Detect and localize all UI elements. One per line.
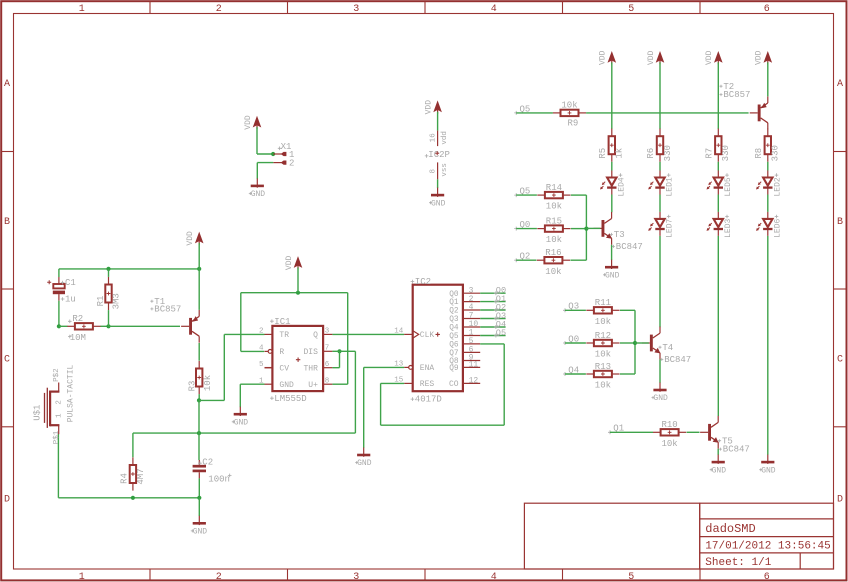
svg-text:3: 3 — [353, 572, 359, 582]
svg-text:BC847: BC847 — [616, 242, 643, 252]
svg-text:GND: GND — [605, 271, 620, 280]
wire IC1 GND — [240, 384, 264, 407]
svg-text:CO: CO — [449, 380, 459, 389]
node net label Q3-R11 — [563, 302, 579, 313]
transistor T5 — [700, 416, 719, 449]
resistor R2 — [67, 314, 100, 343]
wire — [565, 342, 586, 344]
wire — [198, 269, 200, 310]
svg-text:R3: R3 — [187, 381, 197, 392]
svg-text:GND: GND — [193, 528, 208, 537]
svg-text:Q: Q — [313, 331, 318, 340]
svg-text:GND: GND — [712, 466, 727, 475]
svg-text:4: 4 — [491, 4, 497, 15]
svg-text:Q1: Q1 — [449, 299, 459, 307]
wire DIS down — [340, 351, 356, 433]
svg-text:6: 6 — [764, 572, 770, 582]
title block — [524, 503, 833, 569]
transistor T3 — [594, 212, 613, 245]
wire — [612, 62, 719, 128]
label T2 — [720, 82, 751, 100]
pin IC2 CLK 14 — [394, 328, 440, 341]
svg-text:R12: R12 — [595, 331, 611, 341]
svg-text:vss: vss — [441, 163, 449, 177]
wire — [659, 236, 661, 327]
svg-text:R7: R7 — [704, 148, 714, 159]
vdd VDD column — [755, 50, 773, 65]
node junction C1-R2 — [57, 324, 61, 328]
svg-text:VDD: VDD — [755, 50, 764, 65]
led LED1 — [648, 171, 674, 197]
node net label Q4-R13 — [563, 365, 579, 376]
node junction T3 base — [584, 227, 588, 231]
resistor R9 — [553, 101, 586, 129]
wire — [59, 325, 109, 327]
svg-text:Q2: Q2 — [449, 308, 459, 316]
svg-text:GND: GND — [653, 394, 668, 403]
wire — [437, 179, 439, 188]
transistor T4 — [642, 327, 661, 360]
wire — [198, 394, 200, 400]
wire — [108, 269, 110, 326]
svg-text:12: 12 — [469, 377, 479, 386]
svg-text:R14: R14 — [546, 183, 562, 193]
pin IC1 GND 1 — [259, 377, 294, 390]
svg-text:Q5: Q5 — [496, 328, 506, 338]
svg-text:2: 2 — [289, 158, 294, 168]
svg-text:4: 4 — [491, 572, 497, 582]
ground GND C2 — [191, 516, 207, 537]
wire — [586, 112, 749, 114]
svg-text:LED4: LED4 — [617, 177, 626, 196]
svg-text:IC2P: IC2P — [428, 150, 450, 160]
pin IC1 R 4 — [259, 345, 284, 358]
wire DIS-THR — [332, 351, 339, 367]
svg-text:1: 1 — [79, 4, 85, 15]
svg-text:P$1: P$1 — [53, 430, 61, 444]
svg-text:VDD: VDD — [285, 256, 294, 271]
ground GND T4 — [652, 383, 668, 404]
svg-text:Q0: Q0 — [449, 291, 459, 299]
svg-text:R2: R2 — [72, 314, 83, 324]
wire — [717, 449, 719, 455]
svg-text:dadoSMD: dadoSMD — [705, 522, 755, 536]
wire R pin to VDD rail — [241, 293, 348, 352]
svg-text:A: A — [4, 79, 10, 90]
wire — [565, 373, 586, 375]
svg-text:10k: 10k — [546, 235, 562, 245]
wire — [620, 310, 635, 374]
resistor R3 — [187, 361, 213, 394]
svg-text:DIS: DIS — [303, 348, 318, 357]
svg-text:3M3: 3M3 — [111, 293, 121, 309]
svg-text:6: 6 — [325, 361, 330, 369]
svg-text:GND: GND — [431, 199, 446, 208]
svg-text:T3: T3 — [614, 230, 625, 240]
svg-text:R8: R8 — [754, 148, 764, 159]
wire ENA to GND — [364, 367, 405, 447]
pin IC1 Q 3 — [313, 328, 332, 341]
svg-text:TR: TR — [279, 331, 289, 340]
wire — [257, 127, 273, 154]
svg-text:1k: 1k — [615, 148, 625, 159]
wire Q to CLK — [332, 333, 404, 335]
svg-text:BC857: BC857 — [723, 90, 750, 100]
pin IC2 Q4 10 — [449, 320, 480, 332]
wire — [611, 195, 613, 213]
svg-text:R5: R5 — [598, 148, 608, 159]
svg-text:10k: 10k — [661, 439, 677, 449]
svg-text:R1: R1 — [96, 296, 106, 307]
svg-text:A: A — [837, 79, 843, 90]
svg-text:IC2: IC2 — [415, 277, 431, 287]
wire net Q2 — [480, 309, 505, 311]
node junction T1 rail — [197, 267, 201, 271]
svg-text:100n: 100n — [208, 475, 230, 485]
svg-text:T4: T4 — [662, 343, 673, 353]
pin IC1 CV 5 — [259, 361, 289, 374]
resistor R11 — [586, 298, 619, 327]
svg-text:CV: CV — [279, 365, 289, 374]
svg-text:B: B — [837, 217, 843, 228]
svg-text:Q3: Q3 — [449, 316, 459, 324]
svg-text:GND: GND — [279, 381, 294, 390]
svg-text:5: 5 — [259, 361, 264, 369]
resistor R5 — [598, 129, 625, 162]
node junction X1 pin1 — [271, 152, 275, 156]
wire Q6 to RES — [381, 344, 505, 425]
led LED3 — [707, 212, 733, 238]
svg-text:VDD: VDD — [647, 50, 656, 65]
wire — [198, 498, 200, 516]
wire bottom rail — [58, 434, 199, 498]
svg-text:11: 11 — [469, 361, 479, 370]
svg-text:Q9: Q9 — [449, 365, 459, 373]
capacitor C2 — [193, 458, 232, 485]
transistor T2 — [750, 97, 768, 130]
wire — [516, 259, 536, 261]
resistor R15 — [537, 216, 570, 245]
node net label Q0 — [494, 286, 506, 296]
node net label Q5-R14 — [514, 187, 530, 198]
wire — [109, 325, 181, 327]
wire — [58, 301, 60, 327]
led LED7 — [648, 212, 674, 238]
label 4017D — [411, 395, 442, 405]
pin IC2 CO 12 — [449, 377, 480, 390]
svg-text:Q6: Q6 — [449, 342, 459, 350]
svg-text:LED6: LED6 — [773, 218, 782, 237]
svg-text:4M7: 4M7 — [136, 468, 146, 484]
ground GND column4 — [759, 455, 775, 476]
svg-text:10k: 10k — [203, 375, 213, 391]
label IC2P — [425, 150, 450, 160]
svg-text:R16: R16 — [545, 248, 561, 258]
svg-text:R6: R6 — [646, 148, 656, 159]
svg-text:7: 7 — [325, 345, 330, 353]
led LED6 — [756, 212, 782, 238]
svg-text:B: B — [4, 217, 10, 228]
label T5 — [718, 436, 750, 454]
svg-text:Sheet: 1/1: Sheet: 1/1 — [705, 557, 771, 569]
svg-text:GND: GND — [357, 459, 372, 468]
svg-text:U$1: U$1 — [33, 405, 43, 421]
wire U+ to rail — [332, 293, 347, 385]
node net label Q1 — [494, 294, 506, 304]
svg-text:3: 3 — [325, 328, 330, 336]
svg-text:R4: R4 — [120, 473, 130, 484]
svg-text:14: 14 — [394, 328, 404, 336]
svg-text:R13: R13 — [595, 362, 611, 372]
wire — [687, 431, 700, 433]
pin IC2 RES 15 — [394, 377, 434, 390]
node junction mid rail C2 — [197, 431, 201, 435]
svg-text:LED5: LED5 — [724, 177, 733, 196]
ground GND ENA — [355, 448, 371, 469]
svg-text:C1: C1 — [65, 278, 76, 288]
svg-text:VDD: VDD — [599, 50, 608, 65]
svg-text:vdd: vdd — [441, 131, 449, 145]
wire — [59, 269, 199, 277]
vdd VDD column — [599, 50, 617, 65]
svg-text:C: C — [4, 354, 10, 365]
node junction T4 base — [633, 341, 637, 345]
pin IC2P VDD 16 — [430, 131, 450, 147]
pin IC2P VSS 8 — [430, 162, 450, 179]
ground GND T5 — [710, 455, 726, 476]
vdd VDD column — [705, 50, 723, 65]
wire — [516, 112, 553, 114]
wire — [198, 478, 200, 497]
pin IC1 THR 6 — [303, 361, 332, 374]
wire — [612, 162, 768, 171]
svg-text:3: 3 — [353, 4, 359, 15]
vdd VDD IC2P — [424, 100, 442, 115]
wire — [620, 342, 635, 344]
svg-text:R10: R10 — [661, 420, 677, 430]
svg-text:BC847: BC847 — [664, 355, 691, 365]
svg-text:330: 330 — [663, 145, 673, 161]
svg-text:2: 2 — [216, 572, 222, 582]
svg-text:D: D — [4, 494, 10, 505]
pin IC2 ENA 13 — [394, 361, 434, 374]
svg-text:R: R — [279, 348, 284, 357]
svg-text:10k: 10k — [546, 202, 562, 212]
vdd VDD IC1 rail — [285, 256, 303, 271]
svg-text:LED1: LED1 — [666, 177, 675, 196]
svg-text:LED7: LED7 — [666, 218, 675, 237]
svg-text:C2: C2 — [202, 458, 213, 468]
resistor R4 — [120, 457, 146, 490]
connector X1 pin 2 — [273, 158, 294, 168]
wire — [659, 359, 661, 382]
resistor R16 — [537, 248, 570, 277]
ground GND T3 — [603, 260, 619, 281]
node net label Q3 — [494, 311, 506, 321]
node junction R2-R1-T1 — [106, 324, 110, 328]
pin IC2 Q0 3 — [449, 286, 480, 298]
node junction R3-C2 — [197, 398, 201, 402]
svg-text:1: 1 — [79, 572, 85, 582]
svg-text:RES: RES — [420, 380, 435, 389]
svg-text:17/01/2012 13:56:45: 17/01/2012 13:56:45 — [705, 541, 830, 553]
resistor R13 — [586, 362, 619, 391]
wire net Q4 — [480, 326, 505, 328]
op-amp U1 IC1 555 box — [272, 326, 323, 391]
svg-text:IC1: IC1 — [274, 317, 290, 327]
pin IC2 Q9 11 — [449, 361, 480, 373]
wire — [620, 373, 635, 375]
svg-text:GND: GND — [234, 418, 249, 427]
ground GND X1 — [249, 178, 265, 199]
svg-text:THR: THR — [303, 365, 318, 374]
node net label Q5 — [494, 328, 506, 338]
svg-text:GND: GND — [761, 466, 776, 475]
vdd VDD T1 rail — [186, 231, 204, 246]
wire net Q5 — [480, 335, 505, 337]
wire — [571, 228, 587, 230]
node net label Q0-R12 — [563, 334, 579, 345]
ground GND IC1 — [232, 407, 248, 428]
svg-text:2: 2 — [216, 4, 222, 15]
svg-text:10k: 10k — [595, 317, 611, 327]
svg-text:Q5: Q5 — [449, 333, 459, 341]
node net label Q2 — [494, 302, 506, 312]
svg-text:2: 2 — [259, 328, 264, 336]
capacitor C1 — [47, 277, 76, 305]
wire — [660, 195, 768, 212]
svg-text:P$2: P$2 — [53, 368, 61, 382]
svg-text:LM555D: LM555D — [274, 394, 306, 404]
node junction R4 bottom — [131, 496, 135, 500]
resistor R7 — [704, 129, 731, 162]
svg-text:4: 4 — [259, 345, 264, 353]
wire — [516, 228, 537, 230]
resistor R14 — [537, 183, 570, 212]
wire — [198, 343, 200, 361]
svg-text:8: 8 — [325, 377, 330, 385]
svg-text:5: 5 — [628, 572, 634, 582]
pin IC2 Q1 2 — [449, 295, 480, 307]
svg-text:Q7: Q7 — [449, 350, 459, 358]
svg-text:C: C — [837, 354, 843, 365]
svg-text:1u: 1u — [65, 295, 76, 305]
label X1 — [278, 142, 292, 152]
wire TR net — [199, 334, 265, 400]
svg-text:X1: X1 — [281, 142, 292, 152]
svg-text:10k: 10k — [595, 350, 611, 360]
svg-text:R15: R15 — [546, 216, 562, 226]
label IC2 — [411, 277, 431, 287]
wire — [571, 195, 587, 260]
pin IC1 U+ 8 — [308, 377, 332, 390]
wire — [198, 400, 200, 460]
svg-text:Q4: Q4 — [449, 325, 459, 333]
svg-text:LED2: LED2 — [773, 177, 782, 196]
switch U$1 PULSA-TACTIL — [33, 364, 76, 444]
led LED5 — [707, 171, 733, 197]
frame row labels — [4, 79, 843, 505]
svg-text:10k: 10k — [545, 267, 561, 277]
transistor T1 — [181, 310, 199, 343]
svg-text:330: 330 — [771, 145, 781, 161]
node net label Q5-R9 — [514, 104, 530, 115]
wire mid rail — [133, 433, 356, 457]
node junction VDD rail — [296, 291, 300, 295]
svg-text:CLK: CLK — [420, 331, 435, 340]
resistor R8 — [754, 129, 781, 162]
pin IC1 TR 2 — [259, 328, 289, 341]
svg-text:1: 1 — [56, 413, 64, 418]
node net label Q4 — [494, 319, 506, 329]
vdd VDD X1 — [244, 115, 261, 130]
svg-text:5: 5 — [628, 4, 634, 15]
resistor R1 — [96, 277, 121, 310]
svg-text:2: 2 — [56, 400, 64, 405]
node junction DIS — [337, 349, 341, 353]
wire — [257, 163, 273, 179]
node junction R1 top — [106, 267, 110, 271]
svg-text:16: 16 — [430, 133, 438, 143]
wire — [297, 268, 299, 293]
wire net Q0 — [480, 292, 505, 294]
label LM555D — [270, 394, 307, 404]
svg-text:BC847: BC847 — [723, 445, 750, 455]
wire — [610, 431, 653, 433]
pin IC2 Q2 4 — [449, 303, 480, 315]
wire net Q3 — [480, 318, 505, 320]
wire — [717, 236, 719, 416]
svg-text:VDD: VDD — [186, 231, 195, 246]
svg-text:GND: GND — [251, 190, 266, 199]
counter IC2 4017 box — [413, 285, 463, 392]
led LED2 — [756, 171, 782, 197]
label T1 — [150, 297, 181, 315]
label IC1 — [270, 317, 300, 362]
resistor R10 — [653, 420, 686, 449]
svg-text:6: 6 — [764, 4, 770, 15]
wire — [198, 243, 200, 269]
svg-text:VDD: VDD — [424, 100, 433, 115]
svg-text:VDD: VDD — [705, 50, 714, 65]
resistor R6 — [646, 129, 673, 162]
svg-text:10k: 10k — [595, 381, 611, 391]
wire — [586, 227, 600, 229]
pin IC2 Q6 5 — [449, 337, 480, 349]
pin IC2 Q3 7 — [449, 312, 480, 324]
wire — [565, 309, 586, 311]
label T3 — [610, 230, 643, 252]
svg-text:U+: U+ — [308, 381, 318, 390]
wire — [611, 245, 613, 260]
ground GND IC2P — [429, 188, 445, 209]
pin IC2 Q7 6 — [449, 346, 480, 358]
node net label Q0-R15 — [514, 220, 530, 231]
svg-text:PULSA-TACTIL: PULSA-TACTIL — [66, 364, 75, 422]
svg-text:VDD: VDD — [244, 115, 253, 130]
svg-text:8: 8 — [430, 169, 438, 174]
wire net Q1 — [480, 301, 505, 303]
svg-text:BC857: BC857 — [154, 305, 181, 315]
node junction C2 bottom — [197, 496, 201, 500]
node net label Q2-R16 — [514, 252, 530, 263]
label T4 — [659, 343, 692, 365]
wire — [516, 194, 537, 196]
connector X1 pin 1 — [273, 150, 294, 160]
led LED4 — [600, 171, 626, 197]
svg-text:330: 330 — [721, 145, 731, 161]
vdd VDD column — [647, 50, 665, 65]
